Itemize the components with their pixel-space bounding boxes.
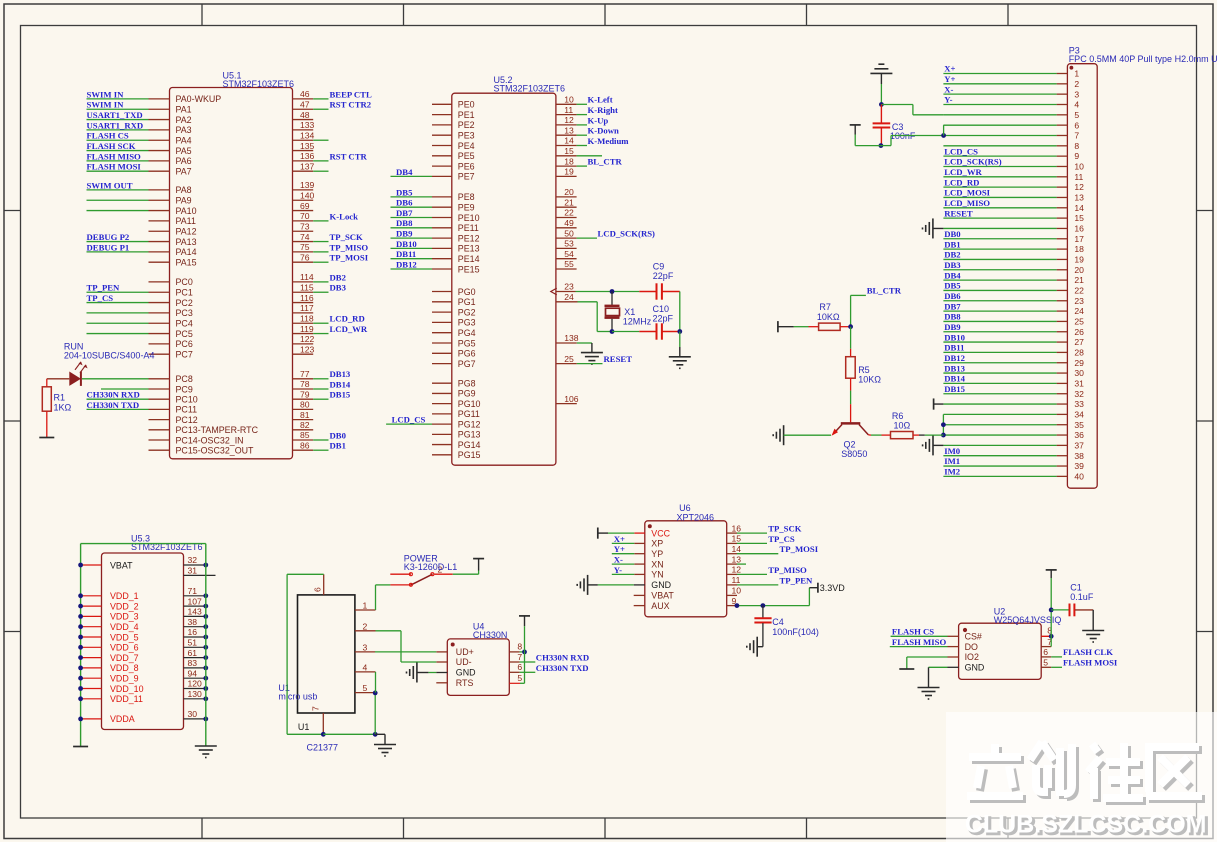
svg-text:DB12: DB12 xyxy=(396,259,417,269)
svg-text:117: 117 xyxy=(300,303,314,313)
U6 pin 11 (right) xyxy=(727,575,813,585)
svg-text:PA2: PA2 xyxy=(176,115,192,125)
U5.1 pin 70 (right) xyxy=(293,211,359,221)
U5.2 pin PE0 (left) xyxy=(432,100,475,110)
svg-text:24: 24 xyxy=(1074,306,1084,316)
svg-text:VDD_8: VDD_8 xyxy=(110,663,139,673)
U5.1 pin PC0 (left) xyxy=(149,277,193,287)
svg-text:TP_MISO: TP_MISO xyxy=(768,565,807,575)
svg-text:PG2: PG2 xyxy=(458,307,476,317)
svg-text:3: 3 xyxy=(1074,89,1079,99)
svg-text:K-Left: K-Left xyxy=(588,95,613,105)
svg-text:DB5: DB5 xyxy=(396,187,413,197)
svg-text:82: 82 xyxy=(300,420,310,430)
U5.2 pin PE9 (left) xyxy=(391,198,475,213)
svg-text:FLASH MISO: FLASH MISO xyxy=(87,151,142,161)
U2 pin 8 (right) xyxy=(1041,626,1052,637)
U5.1 pin 136 (right) xyxy=(293,151,368,161)
U6 pin VCC with supply stub xyxy=(598,528,671,539)
U5.3 VDD_11 pin xyxy=(81,694,143,704)
svg-text:DB10: DB10 xyxy=(944,332,965,342)
svg-text:C4: C4 xyxy=(772,617,784,627)
U5.1 pin 77 (right) xyxy=(293,369,351,379)
svg-text:XN: XN xyxy=(651,559,663,569)
P3 pin 28 xyxy=(943,343,1084,358)
svg-text:28: 28 xyxy=(1074,348,1084,358)
node: C10 right junction xyxy=(677,329,682,334)
U5.3 pin 120 (right) xyxy=(184,679,209,691)
U5.1 pin PC13-TAMPER-RTC (left) xyxy=(149,425,259,435)
U1 pin 5 xyxy=(355,683,375,693)
svg-text:10: 10 xyxy=(1074,162,1084,172)
svg-text:24: 24 xyxy=(564,292,574,302)
U5.1 pin PA1 (left) xyxy=(87,100,192,115)
U5.1 pin PC7 (left) xyxy=(149,350,193,360)
svg-text:16: 16 xyxy=(732,523,742,533)
P3 pin 2 xyxy=(943,74,1079,89)
svg-text:PC8: PC8 xyxy=(176,374,193,384)
U5.3 VDD_1 pin xyxy=(81,591,139,601)
U5.2 pin 106 (right) xyxy=(556,394,579,404)
svg-text:PC7: PC7 xyxy=(176,350,193,360)
P3 pin 15 xyxy=(943,208,1084,223)
svg-text:FLASH CS: FLASH CS xyxy=(892,627,934,637)
svg-text:X-: X- xyxy=(944,84,953,94)
U5.2 pin PG2 (left) xyxy=(432,307,476,317)
svg-text:FLASH MOSI: FLASH MOSI xyxy=(1063,658,1118,668)
svg-text:PE5: PE5 xyxy=(458,151,475,161)
svg-text:DB15: DB15 xyxy=(944,384,965,394)
U5.3 VDD_6 pin xyxy=(81,643,139,653)
wire LED anode to R1 xyxy=(47,379,70,387)
wire BL_CTR to R7/R5 node xyxy=(851,295,866,326)
svg-text:TP_SCK: TP_SCK xyxy=(768,524,802,534)
svg-text:PE12: PE12 xyxy=(458,233,480,243)
U5.2 pin PG13 (left) xyxy=(432,430,481,440)
U5.1 pin 134 (right) xyxy=(293,130,329,140)
svg-text:DB4: DB4 xyxy=(944,270,961,280)
svg-text:TP_MOSI: TP_MOSI xyxy=(780,544,819,554)
svg-text:14: 14 xyxy=(1074,203,1084,213)
svg-text:VDD_1: VDD_1 xyxy=(110,591,139,601)
svg-text:PG0: PG0 xyxy=(458,287,476,297)
power stub left of R7 xyxy=(778,321,794,332)
svg-text:14: 14 xyxy=(732,544,742,554)
U6 pin 9 (right) xyxy=(727,596,737,606)
U5.2 pin PG4 (left) xyxy=(432,328,476,338)
R1 lower lead xyxy=(46,411,48,437)
wire U1 pin5 down to bottom rail xyxy=(374,693,376,734)
U4 pin GND xyxy=(436,668,475,678)
U2 first pin marker xyxy=(963,628,967,632)
svg-text:11: 11 xyxy=(732,575,741,585)
wire U1 pin3 to U4 UD+ xyxy=(375,651,436,653)
svg-text:71: 71 xyxy=(188,586,198,596)
U5.1 pin PA10 (left) xyxy=(87,206,197,216)
svg-text:DEBUG P2: DEBUG P2 xyxy=(87,232,130,242)
svg-text:PA6: PA6 xyxy=(176,156,192,166)
svg-text:PC11: PC11 xyxy=(176,405,198,415)
P3 pin 13 xyxy=(943,188,1084,203)
svg-text:26: 26 xyxy=(1074,327,1084,337)
svg-text:K-Lock: K-Lock xyxy=(330,211,359,221)
svg-text:80: 80 xyxy=(300,400,310,410)
U5.2 pin PE13 (left) xyxy=(391,239,480,254)
svg-text:DB7: DB7 xyxy=(396,208,413,218)
U5.2 pin PG8 (left) xyxy=(432,379,476,389)
svg-text:27: 27 xyxy=(1074,337,1084,347)
U5.2 pin PE8 (left) xyxy=(391,187,475,202)
wire power stub down to U4 pin8 and pin5 xyxy=(524,626,526,683)
U5.1 pin 80 (right) xyxy=(293,400,314,410)
svg-text:136: 136 xyxy=(300,151,315,161)
U4 pin UD- xyxy=(436,657,471,667)
svg-text:BEEP CTL: BEEP CTL xyxy=(330,89,372,99)
svg-text:23: 23 xyxy=(564,282,574,292)
P3 pin 1 xyxy=(943,64,1079,79)
U5.2 pin PE11 (left) xyxy=(391,218,479,233)
svg-text:46: 46 xyxy=(300,89,310,99)
svg-text:CS#: CS# xyxy=(965,632,982,642)
svg-text:PA9: PA9 xyxy=(176,196,192,206)
ground at P3 pin16 xyxy=(923,218,944,238)
svg-text:PA3: PA3 xyxy=(176,125,192,135)
svg-text:DB6: DB6 xyxy=(396,198,413,208)
U5.3 pin 32 (right) xyxy=(184,555,209,567)
svg-text:DB2: DB2 xyxy=(944,250,960,260)
svg-text:38: 38 xyxy=(1074,451,1084,461)
U5.1 pin 118 (right) xyxy=(293,313,365,323)
U6 pin YP with net label Y+ xyxy=(612,544,663,559)
svg-text:39: 39 xyxy=(1074,461,1084,471)
ground below R1 xyxy=(39,437,54,439)
svg-text:PA15: PA15 xyxy=(176,258,197,268)
svg-text:PG15: PG15 xyxy=(458,450,481,460)
resistor R5 body xyxy=(846,327,856,423)
svg-text:PC4: PC4 xyxy=(176,319,193,329)
P3 pin 39 xyxy=(943,456,1084,471)
svg-text:118: 118 xyxy=(300,313,314,323)
P3 pin 25 xyxy=(943,312,1084,327)
U5.1 pin PC6 (left) xyxy=(149,339,193,349)
svg-text:PA5: PA5 xyxy=(176,146,192,156)
svg-text:DEBUG P1: DEBUG P1 xyxy=(87,242,130,252)
svg-text:R1: R1 xyxy=(54,393,66,403)
P3 pin 14 xyxy=(943,198,1084,213)
ground stub below left rail xyxy=(73,746,88,748)
svg-text:22: 22 xyxy=(564,208,574,218)
svg-text:GND: GND xyxy=(651,580,671,590)
svg-text:35: 35 xyxy=(1074,420,1084,430)
U5.2 pin 13 (right) xyxy=(556,125,619,135)
svg-text:81: 81 xyxy=(300,410,310,420)
U5.2 pin PE1 (left) xyxy=(432,110,475,120)
IC U5.3 STM32F103ZET6 body xyxy=(102,553,184,730)
svg-text:C9: C9 xyxy=(653,262,665,272)
svg-text:22pF: 22pF xyxy=(653,271,674,281)
wire pin6 down to pin7 node xyxy=(944,125,1057,135)
svg-text:PC12: PC12 xyxy=(176,415,198,425)
svg-text:20: 20 xyxy=(1074,265,1084,275)
U4 pin UD+ xyxy=(436,647,474,657)
U5.1 pin PA3 (left) xyxy=(87,120,192,135)
svg-text:25: 25 xyxy=(1074,317,1084,327)
svg-text:9: 9 xyxy=(1074,151,1079,161)
svg-text:AUX: AUX xyxy=(651,601,669,611)
svg-text:PA14: PA14 xyxy=(176,247,197,257)
left rail junction dots xyxy=(78,563,83,722)
svg-text:X1: X1 xyxy=(624,307,635,317)
U5.2 pin 21 (right) xyxy=(556,197,577,207)
P3 pin 4 xyxy=(943,95,1079,110)
svg-text:Y+: Y+ xyxy=(944,74,955,84)
svg-text:DB6: DB6 xyxy=(944,291,961,301)
svg-text:DB2: DB2 xyxy=(330,272,346,282)
U5.1 pin PC10 (left) xyxy=(87,390,198,405)
svg-text:PC0: PC0 xyxy=(176,277,193,287)
U5.2 pin 25 (right) xyxy=(556,354,577,364)
svg-text:138: 138 xyxy=(564,333,579,343)
U5.3 top bus wire xyxy=(81,543,206,545)
svg-text:BL_CTR: BL_CTR xyxy=(867,285,902,295)
U5.1 pin PC8 (left) xyxy=(82,374,193,384)
svg-text:CH330N TXD: CH330N TXD xyxy=(536,663,589,673)
svg-text:LCD_WR: LCD_WR xyxy=(330,324,368,334)
svg-text:5: 5 xyxy=(363,683,368,693)
U5.2 pin PE5 (left) xyxy=(432,151,475,161)
svg-text:PA10: PA10 xyxy=(176,206,197,216)
svg-text:10: 10 xyxy=(564,95,574,105)
svg-text:USART1_TXD: USART1_TXD xyxy=(87,110,143,120)
svg-text:SWIM IN: SWIM IN xyxy=(87,89,125,99)
P3 pin 27 xyxy=(943,332,1084,347)
svg-text:PC13-TAMPER-RTC: PC13-TAMPER-RTC xyxy=(176,425,259,435)
svg-text:114: 114 xyxy=(300,272,314,282)
IC U6 XPT2046 body xyxy=(645,521,727,617)
U5.3 VDD_3 pin xyxy=(81,612,139,622)
svg-text:SWIM OUT: SWIM OUT xyxy=(87,180,133,190)
svg-text:PC2: PC2 xyxy=(176,298,193,308)
wire C3 bottom to pin7 net xyxy=(881,135,944,145)
U5.1 pin PC9 (left) xyxy=(101,384,193,394)
U5.3 VDD_8 pin xyxy=(81,663,139,673)
U5.1 pin 137 (right) xyxy=(293,161,329,171)
svg-text:Y-: Y- xyxy=(944,95,952,105)
P3 pin 35 xyxy=(943,420,1084,430)
svg-text:XP: XP xyxy=(651,539,663,549)
ground below C4 xyxy=(747,637,763,657)
P3 pin 21 xyxy=(943,270,1084,285)
svg-text:DB14: DB14 xyxy=(944,374,965,384)
svg-text:22: 22 xyxy=(1074,286,1084,296)
svg-text:IM1: IM1 xyxy=(944,456,960,466)
svg-text:PA7: PA7 xyxy=(176,167,192,177)
U5.3 pin 30 (right) xyxy=(184,709,209,721)
U5.2 pin PE7 (left) xyxy=(391,167,475,182)
svg-text:PA11: PA11 xyxy=(176,216,196,226)
svg-text:25: 25 xyxy=(564,354,574,364)
U5.1 pin 135 (right) xyxy=(293,141,315,151)
svg-text:CH330N: CH330N xyxy=(473,630,508,640)
U5.3 pin 61 (right) xyxy=(184,648,209,660)
svg-text:SWIM IN: SWIM IN xyxy=(87,100,125,110)
IC U4 CH330N body xyxy=(447,639,509,696)
node: junction at C4 top xyxy=(761,603,766,608)
svg-text:3.3VD: 3.3VD xyxy=(820,583,846,593)
U5.1 pin 115 (right) xyxy=(293,282,347,292)
node: junction ground/C3/Y- row xyxy=(879,102,884,107)
svg-text:135: 135 xyxy=(300,141,315,151)
ground left of Q2 xyxy=(773,425,783,445)
U6 pin 14 (right) xyxy=(727,544,819,554)
svg-text:10Ω: 10Ω xyxy=(894,421,911,431)
U6 first pin marker xyxy=(648,524,652,528)
P3 pin 5 xyxy=(943,110,1079,120)
U5.1 pin 114 (right) xyxy=(293,272,346,282)
svg-text:PC14-OSC32_IN: PC14-OSC32_IN xyxy=(176,435,244,445)
svg-text:GND: GND xyxy=(456,668,476,678)
svg-text:PG5: PG5 xyxy=(458,338,476,348)
U6 pin 10 (right) xyxy=(727,586,742,596)
svg-text:12MHz: 12MHz xyxy=(623,317,652,327)
svg-text:VDD_2: VDD_2 xyxy=(110,601,139,611)
svg-text:21: 21 xyxy=(1074,275,1084,285)
U6 pin XP with net label X+ xyxy=(612,534,663,549)
U6 pin YN with net label Y- xyxy=(612,565,664,580)
svg-text:8: 8 xyxy=(517,641,522,651)
svg-text:PE9: PE9 xyxy=(458,203,475,213)
svg-text:PE8: PE8 xyxy=(458,192,475,202)
svg-text:CH330N RXD: CH330N RXD xyxy=(87,390,140,400)
P3 pin 6 xyxy=(943,120,1079,130)
svg-text:1: 1 xyxy=(1074,69,1079,79)
svg-text:IM2: IM2 xyxy=(944,467,960,477)
U5.1 pin 133 (right) xyxy=(293,120,315,130)
IC U5.1 STM32F103ZET6 body xyxy=(170,88,293,459)
svg-text:TP_CS: TP_CS xyxy=(87,293,114,303)
ground at pin 138 xyxy=(581,353,603,365)
U5.3 VDD_5 pin xyxy=(81,632,139,642)
transistor Q2 S8050 xyxy=(832,423,869,435)
node: C3 bottom junction xyxy=(879,143,884,148)
svg-text:1: 1 xyxy=(363,601,368,611)
node: U2 pin8 junction xyxy=(1049,634,1054,639)
svg-text:PG11: PG11 xyxy=(458,409,480,419)
svg-text:VDD_10: VDD_10 xyxy=(110,684,144,694)
P3 pin 20 xyxy=(943,260,1084,275)
U5.2 pin PG7 (left) xyxy=(432,359,476,369)
P3 first pin marker xyxy=(1070,66,1074,70)
svg-text:C21377: C21377 xyxy=(307,743,339,753)
U5.1 pin 119 (right) xyxy=(293,324,368,334)
U5.1 pin PC4 (left) xyxy=(87,319,193,329)
U1 pin 4 xyxy=(355,662,376,672)
U5.1 pin PA13 (left) xyxy=(87,232,197,247)
svg-text:38: 38 xyxy=(188,617,198,627)
IC U5.2 STM32F103ZET6 body xyxy=(452,93,556,465)
U5.2 pin 18 (right) xyxy=(556,156,623,166)
U5.3 pin 38 (right) xyxy=(184,617,209,629)
svg-text:UD-: UD- xyxy=(456,657,472,667)
svg-text:PE15: PE15 xyxy=(458,264,480,274)
svg-text:20: 20 xyxy=(564,187,574,197)
svg-text:PC10: PC10 xyxy=(176,395,198,405)
U5.2 pin 22 (right) xyxy=(556,208,577,218)
P3 pin 24 xyxy=(943,301,1084,316)
svg-text:6: 6 xyxy=(517,662,522,672)
svg-text:1KΩ: 1KΩ xyxy=(54,403,72,413)
power stub left of C3 xyxy=(850,125,881,146)
node: U1 pin5 junction xyxy=(373,691,378,696)
svg-text:36: 36 xyxy=(1074,430,1084,440)
svg-text:10KΩ: 10KΩ xyxy=(817,312,840,322)
svg-text:S8050: S8050 xyxy=(841,449,867,459)
U5.2 pin PE14 (left) xyxy=(391,249,480,264)
U5.3 right power rail xyxy=(205,544,207,746)
svg-text:49: 49 xyxy=(564,218,574,228)
svg-text:31: 31 xyxy=(1074,379,1084,389)
U5.3 pin 130 (right) xyxy=(184,689,209,701)
svg-text:7: 7 xyxy=(1074,131,1079,141)
U5.1 pin 46 (right) xyxy=(293,89,372,99)
svg-text:10: 10 xyxy=(732,586,742,596)
svg-text:7: 7 xyxy=(310,706,320,711)
U5.2 pin 20 (right) xyxy=(556,187,577,197)
svg-text:122: 122 xyxy=(300,334,315,344)
svg-text:TP_SCK: TP_SCK xyxy=(330,232,364,242)
U5.1 pin PC3 (left) xyxy=(87,308,193,318)
svg-text:DB9: DB9 xyxy=(396,229,413,239)
U6 pin XN with net label X- xyxy=(612,555,664,570)
svg-text:18: 18 xyxy=(564,156,574,166)
U5.1 pin PA0-WKUP (left) xyxy=(87,89,222,104)
P3 pin 7 xyxy=(943,131,1079,141)
svg-text:22pF: 22pF xyxy=(653,314,674,324)
svg-text:17: 17 xyxy=(1074,234,1084,244)
svg-text:PE11: PE11 xyxy=(458,223,479,233)
svg-text:DB15: DB15 xyxy=(330,390,351,400)
svg-text:15: 15 xyxy=(1074,213,1084,223)
power stub above C1 xyxy=(1046,570,1057,578)
U5.1 pin PA8 (left) xyxy=(87,180,192,195)
U5.2 pin PE2 (left) xyxy=(432,120,475,130)
U5.2 pin PG0 (left) xyxy=(432,287,476,297)
svg-text:TP_PEN: TP_PEN xyxy=(87,283,121,293)
U5.1 pin 139 (right) xyxy=(293,180,315,190)
svg-text:PE2: PE2 xyxy=(458,120,475,130)
P3 pin 9 xyxy=(943,146,1079,161)
svg-text:LCD_CS: LCD_CS xyxy=(392,415,426,425)
U5.2 pin PG3 (left) xyxy=(432,318,476,328)
svg-text:8: 8 xyxy=(1074,141,1079,151)
wire pin24 to crystal bottom xyxy=(578,302,613,332)
P3 pin 12 xyxy=(943,177,1084,192)
svg-text:PC15-OSC32_OUT: PC15-OSC32_OUT xyxy=(176,446,255,456)
svg-text:RST CTR2: RST CTR2 xyxy=(330,100,372,110)
watermark backdrop xyxy=(946,712,1217,842)
U5.1 pin 82 (right) xyxy=(293,420,314,430)
svg-text:13: 13 xyxy=(1074,193,1084,203)
power stub above switch xyxy=(473,558,484,560)
U5.3 VDD_7 pin xyxy=(81,653,139,663)
switch POWER K3-1260D-L1 xyxy=(390,565,442,587)
U2 pin GND with ground xyxy=(929,663,985,688)
svg-text:73: 73 xyxy=(300,221,310,231)
capacitor C10 xyxy=(612,323,680,339)
svg-text:Y+: Y+ xyxy=(614,544,625,554)
U5.1 pin PC5 (left) xyxy=(87,329,193,339)
svg-text:VDD_3: VDD_3 xyxy=(110,612,139,622)
